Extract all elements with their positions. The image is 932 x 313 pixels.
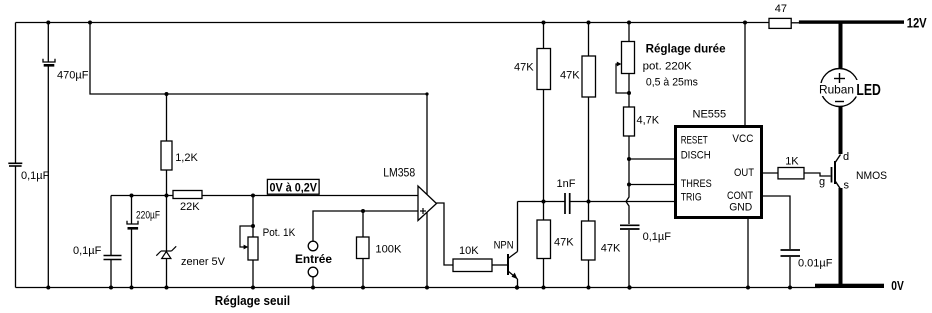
resistor R9 4,7K body — [624, 107, 635, 136]
svg-text:220µF: 220µF — [136, 210, 160, 222]
capacitor C1 0,1uF plates — [8, 163, 22, 166]
svg-text:GND: GND — [729, 201, 752, 213]
wire CONT to 0.01uF — [762, 196, 791, 249]
svg-text:CONT: CONT — [727, 190, 753, 202]
wire 1,2K leads — [166, 94, 168, 141]
svg-text:47K: 47K — [514, 62, 534, 74]
resistor R3 100K body — [357, 237, 370, 259]
wire zener branch — [166, 196, 168, 252]
IC U2 NE555 box — [676, 127, 762, 218]
node top rail junctions — [46, 21, 50, 25]
resistor R5 47K top1 body — [537, 49, 551, 90]
node supply loop junctions — [165, 92, 169, 96]
node terminal Entree lower — [308, 267, 318, 277]
wire THRES — [629, 184, 676, 186]
wire oscillator node horizontal — [518, 201, 565, 203]
wire 100K leads — [362, 211, 364, 237]
resistor R2 22K body — [173, 191, 202, 199]
svg-text:0.01µF: 0.01µF — [798, 258, 833, 270]
resistor R8 47K bottom2 body — [582, 221, 596, 260]
svg-text:100K: 100K — [375, 243, 402, 255]
svg-text:0,5 à 25ms: 0,5 à 25ms — [646, 76, 698, 88]
svg-text:1K: 1K — [785, 156, 799, 168]
wire NPN emitter to rail — [517, 279, 519, 288]
wire 220uF branch — [131, 196, 133, 224]
capacitor C3 220uF polarized — [127, 221, 138, 230]
label box 0V a 0,2V — [267, 179, 319, 194]
capacitor C6 0,1uF plates — [620, 225, 640, 229]
wire op-amp output — [437, 203, 454, 265]
svg-text:1,2K: 1,2K — [175, 152, 198, 164]
svg-text:NMOS: NMOS — [856, 170, 887, 182]
svg-text:Réglage durée: Réglage durée — [646, 41, 726, 55]
wire 47K bottom1 leads — [543, 202, 545, 221]
wire 47K top1 leads — [543, 23, 545, 49]
svg-text:0V: 0V — [891, 278, 904, 293]
wire supply loop x90 — [90, 23, 427, 288]
wire pot220K branch with jog over TRIG wire — [628, 23, 630, 42]
node pot220K junctions — [627, 91, 631, 95]
svg-text:LED: LED — [856, 82, 881, 99]
capacitor C5 1nF plates — [565, 193, 570, 214]
svg-text:zener 5V: zener 5V — [181, 256, 226, 268]
svg-text:12V: 12V — [907, 14, 928, 30]
potentiometer P1 Pot. 1K — [240, 226, 258, 260]
resistor R4 10K body — [453, 259, 492, 272]
LED lamp circle Ruban LED — [821, 69, 859, 107]
svg-text:10K: 10K — [459, 245, 479, 257]
potentiometer P2 pot. 220K — [616, 42, 635, 94]
svg-text:NPN: NPN — [494, 240, 514, 252]
wire pot 1K branch — [252, 196, 254, 238]
node plus input junction — [361, 209, 365, 213]
capacitor C4 0,1uF plates — [104, 256, 122, 260]
svg-text:TRIG: TRIG — [681, 191, 702, 203]
wire OUT to 1K — [762, 172, 779, 174]
wire 10K to NPN base — [492, 264, 508, 266]
svg-text:0,1µF: 0,1µF — [21, 170, 50, 182]
svg-text:47K: 47K — [560, 70, 580, 82]
node bottom rail junctions — [46, 286, 50, 290]
wire 0V thick bar — [815, 284, 884, 288]
resistor R11 47 body — [769, 18, 791, 28]
wire 1K to gate — [804, 173, 831, 176]
wire entree lower to rail — [312, 277, 314, 288]
svg-text:RESET: RESET — [681, 134, 708, 146]
node terminal Entree upper — [308, 241, 318, 251]
svg-text:LM358: LM358 — [383, 166, 415, 180]
svg-text:VCC: VCC — [732, 133, 753, 145]
svg-text:47K: 47K — [554, 237, 574, 249]
capacitor C2 470uF polarized — [43, 59, 55, 67]
svg-text:Entrée: Entrée — [295, 252, 332, 266]
wire bottom rail 0V thin — [16, 287, 821, 289]
svg-text:d: d — [843, 151, 849, 163]
diode D1 zener 5V — [156, 246, 176, 258]
node oscillator wire junctions — [542, 200, 546, 204]
svg-text:pot. 220K: pot. 220K — [643, 61, 693, 73]
label LED — [856, 80, 883, 99]
svg-text:470µF: 470µF — [57, 69, 89, 81]
svg-text:s: s — [844, 180, 850, 192]
wire GND to rail — [747, 218, 749, 288]
wire thick LED drain vertical segments — [839, 21, 843, 286]
wire 0,1uF2 branch — [110, 196, 112, 256]
svg-text:4,7K: 4,7K — [637, 115, 660, 127]
svg-text:1nF: 1nF — [557, 178, 576, 190]
wire NPN collector up — [517, 202, 519, 252]
svg-text:Ruban: Ruban — [819, 83, 854, 97]
svg-text:THRES: THRES — [681, 178, 712, 190]
resistor R10 1K body — [778, 168, 804, 179]
svg-text:0,1µF: 0,1µF — [73, 245, 102, 257]
wire left vertical branch — [15, 23, 17, 164]
node pot1K wiper junction — [251, 224, 255, 228]
wire 47K top2 leads — [588, 23, 590, 57]
svg-text:47: 47 — [775, 3, 787, 15]
wire 470uF branch — [47, 23, 49, 62]
capacitor C7 0.01uF plates — [781, 250, 801, 256]
wire 12V thick bar — [799, 20, 904, 23]
wire entree to plus input — [313, 211, 418, 241]
resistor R6 47K top2 body — [582, 56, 596, 97]
svg-text:22K: 22K — [180, 201, 200, 213]
wire 47K bottom2 leads — [588, 202, 590, 222]
node seuil wire junctions — [130, 194, 134, 198]
op-amp U1 LM358 — [418, 186, 437, 221]
wire DISCH — [629, 158, 676, 160]
transistor Q1 NPN — [508, 252, 518, 280]
wire node seuil horizontal — [111, 195, 173, 197]
resistor R7 47K bottom1 body — [537, 220, 551, 259]
transistor Q2 NMOS — [832, 155, 841, 190]
wire VCC from rail — [744, 23, 746, 127]
label Ruban — [817, 83, 856, 97]
svg-text:0,1µF: 0,1µF — [643, 231, 672, 243]
wire top rail 12V thin — [16, 22, 770, 24]
svg-text:g: g — [819, 176, 825, 188]
svg-text:0V à 0,2V: 0V à 0,2V — [270, 180, 318, 194]
svg-text:47K: 47K — [601, 243, 621, 255]
svg-text:Réglage seuil: Réglage seuil — [215, 294, 290, 308]
svg-text:Pot. 1K: Pot. 1K — [263, 227, 296, 239]
svg-text:NE555: NE555 — [693, 109, 727, 121]
svg-text:OUT: OUT — [734, 167, 754, 179]
resistor R1 1,2K body — [161, 141, 172, 170]
svg-text:DISCH: DISCH — [681, 149, 711, 161]
